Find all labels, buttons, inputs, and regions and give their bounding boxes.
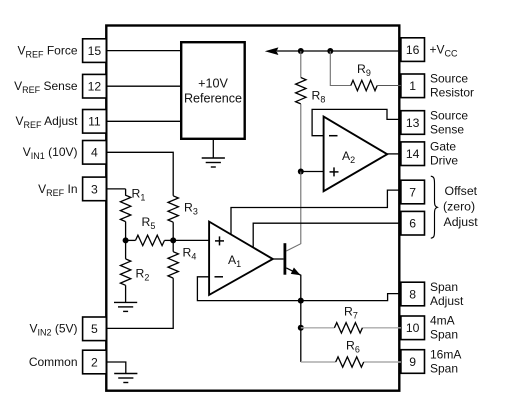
- svg-text:Reference: Reference: [184, 92, 242, 106]
- A2 plus sign: [330, 167, 339, 176]
- junction node on rail at R9: [327, 48, 333, 54]
- junction node left (R1 R2 R5): [123, 237, 129, 243]
- op-amp A2: [324, 117, 388, 192]
- pin 6 box: [401, 211, 425, 235]
- IC boundary box: [106, 26, 399, 391]
- svg-text:Source: Source: [430, 72, 468, 86]
- wire R2 to ground: [125, 285, 127, 302]
- pin 5 box: [83, 317, 107, 341]
- svg-text:5: 5: [91, 322, 98, 336]
- resistor R1: [120, 189, 130, 222]
- junction node on rail at R8: [298, 48, 304, 54]
- resistor R6: [336, 357, 364, 367]
- wire A2 output to pin 14: [387, 153, 401, 155]
- svg-text:Resistor: Resistor: [430, 86, 474, 100]
- svg-text:Span: Span: [430, 328, 458, 342]
- wire emitter rail to pin 8: [301, 294, 401, 301]
- svg-text:8: 8: [409, 287, 416, 301]
- A1 plus sign: [215, 236, 224, 245]
- wire A2 plus input to node: [301, 171, 324, 173]
- svg-text:3: 3: [91, 182, 98, 196]
- wire A1 output to Q1 base: [273, 258, 284, 260]
- svg-text:Span: Span: [430, 361, 458, 375]
- svg-text:Gate: Gate: [430, 140, 456, 154]
- ground under reference: [202, 158, 225, 167]
- resistor R5: [126, 239, 136, 241]
- wire node to Q1 collector: [286, 172, 301, 252]
- wire pin 4 to R3: [106, 152, 173, 196]
- svg-text:4mA: 4mA: [430, 314, 455, 328]
- resistor R2: [125, 240, 127, 259]
- wire node to A1 plus input: [173, 239, 209, 241]
- ground at common: [114, 374, 137, 383]
- wire feedback pin 13 to A2 minus input: [312, 109, 401, 135]
- svg-text:9: 9: [409, 355, 416, 369]
- svg-text:Common: Common: [29, 355, 78, 369]
- wire rail to R8: [300, 51, 302, 78]
- svg-text:6: 6: [409, 217, 416, 231]
- wire R8 to A2 + node: [300, 104, 302, 172]
- svg-text:VIN2 (5V): VIN2 (5V): [29, 322, 77, 338]
- pin 13 box: [401, 111, 425, 135]
- pin 2 box: [83, 350, 107, 374]
- arrow to external supply: [265, 47, 279, 55]
- svg-text:11: 11: [88, 115, 101, 129]
- svg-text:16: 16: [406, 43, 420, 57]
- wire +VCC rail from pin 16: [277, 50, 401, 52]
- wire pin 3 to R1: [106, 188, 125, 190]
- svg-text:Offset: Offset: [445, 184, 478, 198]
- wire node down to R6: [300, 328, 302, 362]
- svg-text:4: 4: [91, 146, 98, 160]
- resistor R3: [168, 196, 178, 222]
- pin 10 box: [401, 316, 425, 340]
- pin 11 box: [83, 110, 107, 134]
- svg-text:14: 14: [406, 147, 420, 161]
- svg-text:Adjust: Adjust: [444, 215, 479, 229]
- svg-text:+10V: +10V: [198, 77, 228, 91]
- junction node right (R3 R4 R5): [170, 237, 176, 243]
- wire A1 minus feedback to emitter rail: [197, 277, 300, 301]
- wire pin 2 to ground: [106, 362, 126, 374]
- pin 15 box: [83, 39, 107, 63]
- pin 4 box: [83, 141, 107, 165]
- svg-text:1: 1: [409, 79, 416, 93]
- wire reference to ground: [212, 139, 214, 158]
- +10V Reference block U1: [181, 42, 245, 139]
- pin 1 box: [401, 74, 425, 98]
- pin 8 box: [401, 282, 425, 306]
- svg-text:13: 13: [406, 116, 420, 130]
- junction node A2 plus input: [298, 169, 304, 175]
- pin 9 box: [401, 350, 425, 374]
- resistor R4: [172, 240, 174, 251]
- pin 14 box: [401, 142, 425, 166]
- resistor R8: [296, 78, 306, 104]
- wire pin 12 to reference: [106, 85, 181, 87]
- resistor R6 leads: [301, 361, 336, 363]
- svg-text:2: 2: [91, 355, 98, 369]
- wire R3 to right node: [172, 222, 174, 240]
- ground under R2: [114, 302, 137, 311]
- pin 12 box: [83, 74, 107, 98]
- resistor R9: [351, 80, 377, 90]
- wire R1 to left node: [125, 222, 127, 241]
- svg-text:Sense: Sense: [430, 122, 464, 136]
- transistor Q1 emitter with arrow: [286, 268, 301, 301]
- pin 16 box: [401, 38, 425, 62]
- svg-text:Span: Span: [430, 280, 458, 294]
- wire pin 11 to reference: [106, 120, 181, 122]
- junction node R7: [298, 325, 304, 331]
- svg-text:Adjust: Adjust: [430, 294, 464, 308]
- svg-text:12: 12: [88, 80, 102, 94]
- resistor R7 leads: [301, 327, 335, 329]
- wire R9 to pin 1: [377, 85, 401, 87]
- svg-text:10: 10: [406, 321, 420, 335]
- transistor Q1 base bar: [283, 243, 286, 275]
- wire emitter node down to R7 node: [300, 301, 302, 328]
- svg-text:Source: Source: [430, 108, 468, 122]
- A1 minus sign: [215, 276, 224, 278]
- wire pin 15 to reference: [106, 50, 181, 52]
- pin 3 box: [83, 177, 107, 201]
- brace for offset pins 7 and 6: [431, 176, 438, 238]
- pin 7 box: [401, 180, 425, 204]
- wire pin 6 to A1 top (offset): [253, 223, 401, 247]
- A2 minus sign: [329, 135, 338, 137]
- svg-text:(zero): (zero): [443, 200, 475, 214]
- svg-text:15: 15: [88, 44, 102, 58]
- wire rail to R9: [330, 51, 351, 86]
- svg-text:16mA: 16mA: [430, 347, 461, 361]
- wire pin 7 to A1 top (offset): [231, 190, 401, 234]
- junction node emitter rail: [298, 298, 304, 304]
- svg-text:Drive: Drive: [430, 154, 458, 168]
- wire R4 to pin 5: [106, 278, 173, 328]
- svg-text:7: 7: [409, 185, 416, 199]
- resistor R7: [334, 323, 362, 333]
- op-amp A1: [209, 222, 273, 295]
